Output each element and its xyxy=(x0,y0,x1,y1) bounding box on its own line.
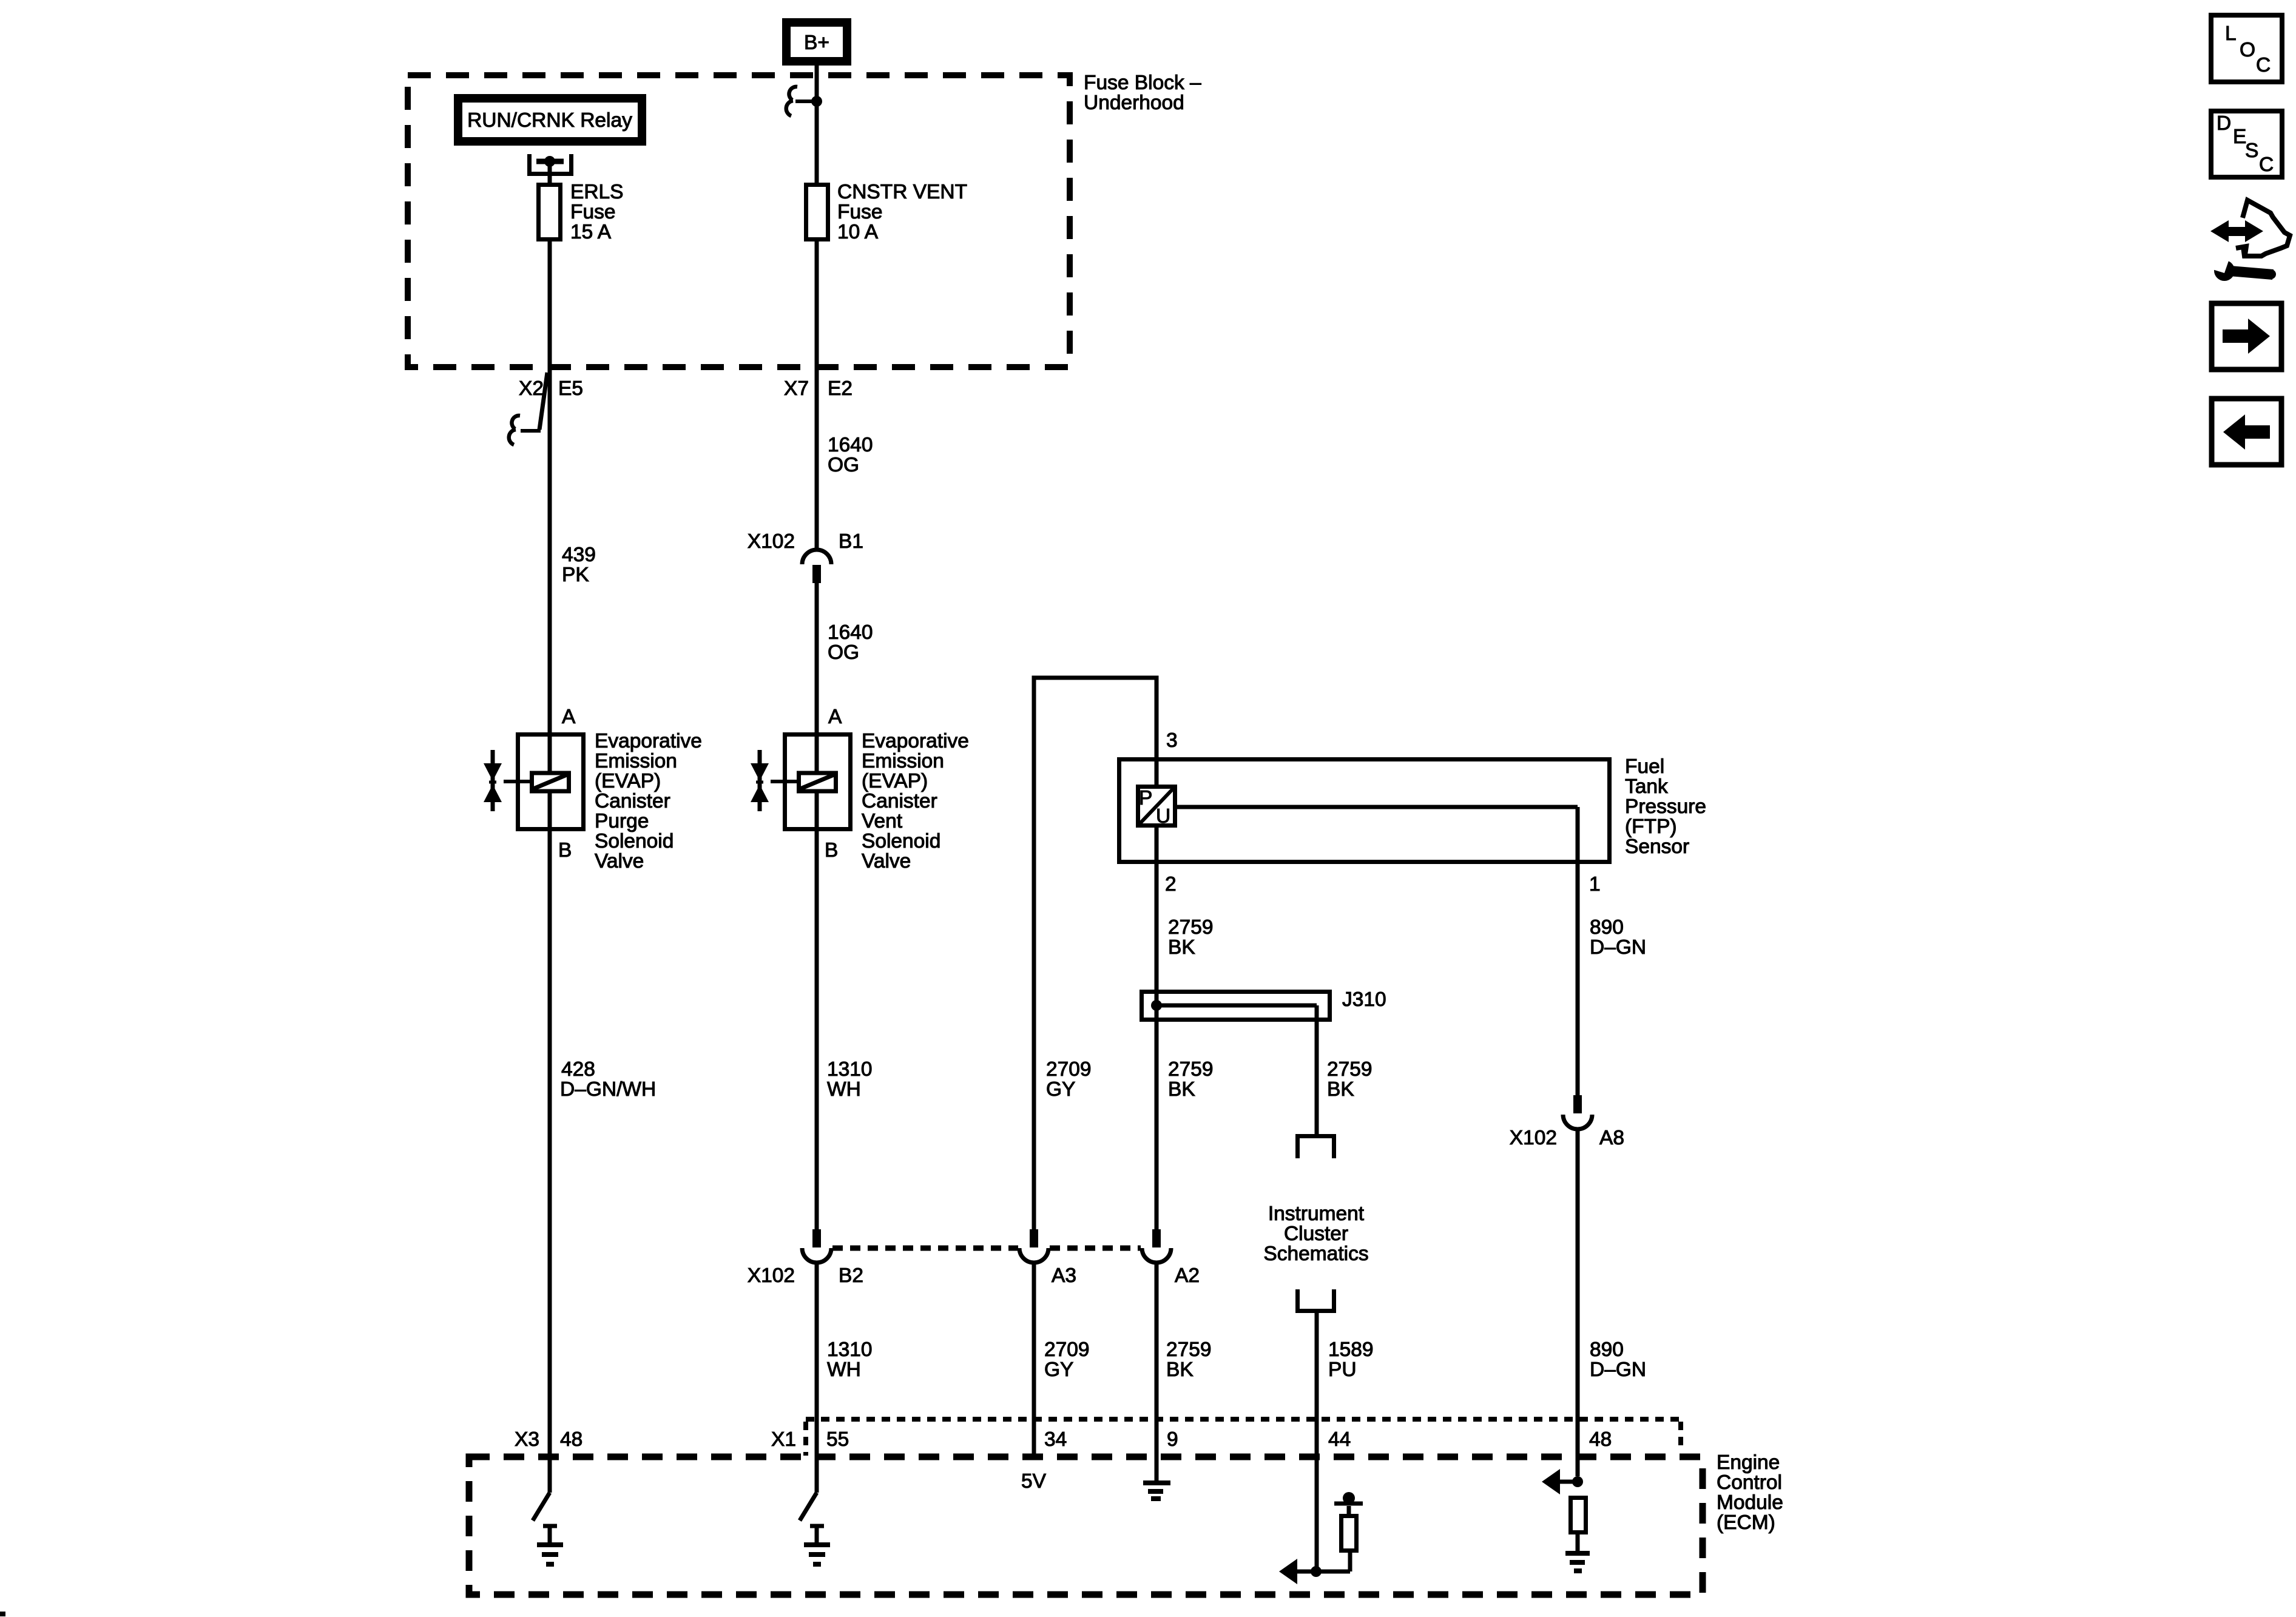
svg-text:WH: WH xyxy=(827,1359,861,1381)
svg-text:B2: B2 xyxy=(839,1264,863,1287)
svg-text:(ECM): (ECM) xyxy=(1717,1511,1775,1534)
svg-text:OG: OG xyxy=(828,454,859,476)
svg-text:3: 3 xyxy=(1166,729,1178,752)
svg-text:890: 890 xyxy=(1590,916,1624,939)
svg-text:X102: X102 xyxy=(748,530,795,553)
svg-text:2759: 2759 xyxy=(1168,1058,1214,1081)
svg-text:X7: X7 xyxy=(784,377,809,400)
svg-text:GY: GY xyxy=(1044,1359,1073,1381)
svg-text:B: B xyxy=(825,839,838,862)
svg-text:Fuse: Fuse xyxy=(570,201,615,223)
svg-text:Evaporative: Evaporative xyxy=(862,730,969,752)
svg-text:Instrument: Instrument xyxy=(1268,1203,1365,1225)
svg-text:2709: 2709 xyxy=(1044,1338,1090,1361)
svg-text:D–GN: D–GN xyxy=(1590,1359,1646,1381)
svg-text:WH: WH xyxy=(827,1078,861,1101)
svg-text:A2: A2 xyxy=(1175,1264,1200,1287)
svg-text:Valve: Valve xyxy=(862,850,911,873)
svg-text:Schematics: Schematics xyxy=(1263,1243,1368,1265)
svg-text:2759: 2759 xyxy=(1168,916,1214,939)
svg-text:CNSTR VENT: CNSTR VENT xyxy=(837,181,967,203)
svg-text:1310: 1310 xyxy=(827,1338,873,1361)
svg-text:OG: OG xyxy=(828,641,859,664)
svg-text:BK: BK xyxy=(1166,1359,1194,1381)
svg-text:(EVAP): (EVAP) xyxy=(595,770,661,792)
svg-text:A8: A8 xyxy=(1599,1127,1624,1149)
svg-text:BK: BK xyxy=(1168,1078,1195,1101)
svg-text:Solenoid: Solenoid xyxy=(862,830,940,852)
svg-text:S: S xyxy=(2245,140,2258,162)
svg-text:L: L xyxy=(2225,22,2237,45)
svg-text:C: C xyxy=(2259,154,2274,176)
svg-text:A: A xyxy=(828,706,842,728)
svg-text:B1: B1 xyxy=(839,530,863,553)
svg-text:Solenoid: Solenoid xyxy=(595,830,674,852)
svg-text:Engine: Engine xyxy=(1717,1451,1780,1474)
svg-text:Valve: Valve xyxy=(595,850,644,873)
svg-text:1640: 1640 xyxy=(828,621,873,644)
svg-text:2709: 2709 xyxy=(1046,1058,1092,1081)
svg-text:2759: 2759 xyxy=(1166,1338,1212,1361)
svg-text:48: 48 xyxy=(1589,1428,1612,1451)
svg-text:A3: A3 xyxy=(1052,1264,1076,1287)
svg-text:RUN/CRNK Relay: RUN/CRNK Relay xyxy=(467,109,632,132)
svg-text:BK: BK xyxy=(1168,936,1195,959)
svg-text:P: P xyxy=(1139,787,1152,809)
svg-text:5V: 5V xyxy=(1021,1470,1047,1493)
svg-text:Emission: Emission xyxy=(862,750,944,772)
svg-text:Purge: Purge xyxy=(595,810,649,832)
svg-text:Fuel: Fuel xyxy=(1625,755,1664,778)
svg-text:E: E xyxy=(2233,126,2246,148)
svg-text:X102: X102 xyxy=(748,1264,795,1287)
svg-text:Sensor: Sensor xyxy=(1625,836,1689,858)
svg-text:B+: B+ xyxy=(804,32,829,54)
svg-text:X2: X2 xyxy=(519,377,544,400)
svg-text:Canister: Canister xyxy=(595,790,670,812)
svg-text:GY: GY xyxy=(1046,1078,1075,1101)
svg-text:A: A xyxy=(562,706,576,728)
svg-text:15 A: 15 A xyxy=(570,221,612,243)
svg-text:Underhood: Underhood xyxy=(1084,92,1184,114)
svg-text:X1: X1 xyxy=(771,1428,796,1451)
svg-text:X3: X3 xyxy=(515,1428,539,1451)
svg-text:2: 2 xyxy=(1165,873,1177,896)
svg-text:Fuse: Fuse xyxy=(837,201,882,223)
svg-text:48: 48 xyxy=(560,1428,582,1451)
svg-text:E2: E2 xyxy=(828,377,853,400)
svg-text:1589: 1589 xyxy=(1328,1338,1374,1361)
svg-text:B: B xyxy=(558,839,572,862)
svg-text:D–GN: D–GN xyxy=(1590,936,1646,959)
svg-text:ERLS: ERLS xyxy=(570,181,624,203)
svg-text:Fuse Block –: Fuse Block – xyxy=(1084,72,1201,94)
svg-text:428: 428 xyxy=(561,1058,595,1081)
svg-text:O: O xyxy=(2240,39,2255,61)
svg-text:439: 439 xyxy=(562,544,596,566)
svg-text:E5: E5 xyxy=(558,377,583,400)
svg-text:Canister: Canister xyxy=(862,790,937,812)
svg-text:U: U xyxy=(1156,805,1170,828)
svg-text:Evaporative: Evaporative xyxy=(595,730,702,752)
svg-text:C: C xyxy=(2256,54,2271,76)
svg-text:1310: 1310 xyxy=(827,1058,873,1081)
svg-text:(FTP): (FTP) xyxy=(1625,815,1677,838)
svg-text:(EVAP): (EVAP) xyxy=(862,770,928,792)
svg-text:X102: X102 xyxy=(1510,1127,1557,1149)
svg-text:1: 1 xyxy=(1589,873,1601,896)
svg-text:PK: PK xyxy=(562,564,589,586)
svg-text:10 A: 10 A xyxy=(837,221,879,243)
svg-text:9: 9 xyxy=(1167,1428,1178,1451)
svg-text:Tank: Tank xyxy=(1625,775,1668,798)
svg-text:Control: Control xyxy=(1717,1471,1782,1494)
svg-text:34: 34 xyxy=(1044,1428,1067,1451)
svg-text:Pressure: Pressure xyxy=(1625,795,1706,818)
svg-text:BK: BK xyxy=(1327,1078,1354,1101)
svg-text:D: D xyxy=(2217,112,2231,135)
svg-text:2759: 2759 xyxy=(1327,1058,1373,1081)
svg-text:1640: 1640 xyxy=(828,434,873,456)
svg-text:Emission: Emission xyxy=(595,750,677,772)
svg-text:44: 44 xyxy=(1328,1428,1351,1451)
svg-text:Cluster: Cluster xyxy=(1284,1223,1348,1245)
svg-text:D–GN/WH: D–GN/WH xyxy=(560,1078,656,1101)
svg-text:Module: Module xyxy=(1717,1491,1783,1514)
svg-text:55: 55 xyxy=(826,1428,849,1451)
svg-text:PU: PU xyxy=(1328,1359,1357,1381)
svg-text:Vent: Vent xyxy=(862,810,903,832)
svg-text:890: 890 xyxy=(1590,1338,1624,1361)
svg-text:J310: J310 xyxy=(1342,988,1386,1011)
